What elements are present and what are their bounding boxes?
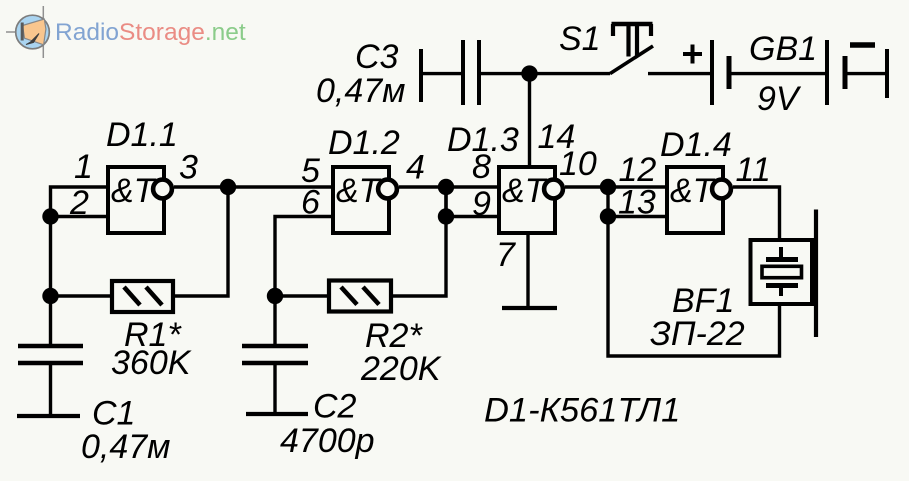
capacitor C1 bottom plate [18, 361, 83, 366]
battery GB1 cell1 long plate [710, 40, 714, 105]
logo transistor circle [16, 15, 50, 49]
battery GB1 cell1 short plate [727, 56, 732, 89]
ground bar [502, 306, 557, 310]
capacitor C2 ground bar [246, 412, 308, 416]
svg-text:D1.2: D1.2 [328, 124, 400, 162]
capacitor C3 plate right [477, 40, 481, 105]
wire pin9 branch [446, 187, 499, 217]
svg-text:220K: 220K [360, 350, 442, 388]
svg-text:C3: C3 [355, 38, 399, 76]
gate D1.1 box [108, 167, 164, 233]
resistor R2 box [329, 281, 391, 312]
svg-text:RadioStorage.net: RadioStorage.net [55, 19, 246, 46]
logo emitter arrow [26, 34, 39, 45]
battery end terminal bar [885, 49, 889, 98]
switch S1 button bar [612, 22, 653, 27]
capacitor C1 ground bar [17, 414, 80, 418]
resistor R1 right wire [173, 187, 228, 296]
piezo BF1 plate B [766, 283, 798, 288]
battery minus sign [850, 42, 875, 48]
svg-text:9V: 9V [757, 80, 802, 118]
wire pin13 branch [608, 187, 667, 217]
battery GB1 cell2 long plate [825, 40, 829, 105]
node dot rail/R1 [42, 288, 58, 304]
wire D1.2 output to D1.3 pin8 [399, 185, 499, 188]
node junction C3/S1/pin14 [521, 65, 537, 81]
resistor R1 slash 1 [124, 287, 140, 305]
switch S1 button bar right tick [649, 24, 653, 36]
battery GB1 cell2 short plate [843, 56, 848, 89]
resistor R2 left wire [275, 294, 329, 297]
svg-text:10: 10 [559, 145, 597, 183]
capacitor C2 bottom plate [242, 361, 308, 366]
gate D1.2 box [333, 167, 389, 233]
node dot output4 top [438, 179, 454, 195]
gate D1.4 output bubble [712, 180, 731, 199]
switch S1 moving contact [610, 46, 653, 74]
resistor R2 slash 1 [341, 287, 357, 305]
switch S1 stem right line [635, 26, 639, 57]
svg-text:0,47м: 0,47м [316, 72, 405, 110]
svg-text:C2: C2 [313, 388, 357, 426]
svg-text:13: 13 [618, 184, 656, 222]
svg-text:9: 9 [472, 185, 491, 223]
resistor R2 slash 2 [363, 287, 379, 305]
svg-text:0,47м: 0,47м [81, 428, 170, 466]
svg-text:GB1: GB1 [749, 30, 817, 68]
svg-text:4700p: 4700p [280, 422, 375, 460]
svg-text:4: 4 [406, 149, 425, 187]
wire BF1 bottom loop [608, 217, 780, 357]
piezo BF1 crystal rect [762, 266, 802, 277]
svg-text:&T: &T [111, 172, 157, 210]
wire output11 to BF1 [733, 187, 780, 239]
svg-text:D1.1: D1.1 [106, 116, 178, 154]
gate D1.3 box [499, 167, 555, 233]
switch S1 button bar left tick [611, 24, 615, 36]
gate D1.2 output bubble [378, 180, 397, 199]
node dot output10 top [600, 179, 616, 195]
wire between cells [729, 72, 827, 75]
wire junction down to pin 14 [528, 74, 531, 167]
logo crosshair horizontal line [6, 31, 22, 33]
switch S1 stem left line [626, 26, 630, 57]
piezo BF1 plate A [766, 257, 798, 262]
wire C3 terminal to plate [421, 72, 462, 75]
piezo BF1 top stem [779, 247, 783, 260]
svg-text:3: 3 [179, 149, 198, 187]
svg-text:11: 11 [736, 151, 771, 189]
resistor R2 right wire [391, 187, 446, 296]
svg-text:&T: &T [670, 172, 716, 210]
wire C3 to S1 [479, 72, 610, 75]
svg-text:ЗП-22: ЗП-22 [650, 315, 745, 353]
wire D1.1 output to D1.2 pin5 [174, 185, 333, 188]
resistor R1 left wire [51, 294, 113, 297]
gate D1.3 output bubble [544, 180, 563, 199]
svg-text:D1.4: D1.4 [660, 126, 732, 164]
gate D1.1 output bubble [153, 180, 172, 199]
node dot output10 bottom [600, 208, 616, 224]
capacitor C3 plate left [461, 40, 465, 105]
resistor R1 box [112, 281, 173, 312]
wire pin6 [275, 217, 333, 347]
piezo BF1 bottom stem [779, 285, 783, 296]
capacitor C3 left terminal bar [419, 49, 423, 102]
node dot pin6/R2 [267, 288, 283, 304]
wire D1.3 output to D1.4 pin12 [565, 185, 667, 188]
svg-text:360K: 360K [111, 344, 192, 382]
wire C2 bottom [273, 363, 276, 414]
svg-text:C1: C1 [92, 395, 135, 433]
wire pin2 [51, 215, 109, 218]
resistor R1 slash 2 [146, 287, 162, 305]
gate D1.4 box [667, 167, 723, 233]
svg-text:&T: &T [336, 172, 382, 210]
battery plus sign [683, 52, 702, 56]
piezo BF1 box [751, 240, 813, 304]
wire C1 bottom [49, 363, 52, 416]
capacitor C2 top plate [242, 344, 308, 349]
logo transistor horn shape [23, 19, 46, 45]
piezo BF1 membrane line [814, 210, 818, 338]
capacitor C1 top plate [18, 344, 83, 349]
logo crosshair vertical line [42, 6, 44, 58]
wire cell2 to end terminal [845, 72, 887, 75]
node dot rail/pin2 [42, 208, 58, 224]
svg-text:1: 1 [74, 148, 93, 186]
node dot output3/R1 [220, 179, 236, 195]
svg-text:8: 8 [472, 148, 491, 186]
wire pin1 [51, 187, 109, 346]
logo transistor base bar [21, 23, 24, 41]
svg-text:7: 7 [496, 236, 516, 274]
node dot output4 bottom [438, 208, 454, 224]
svg-text:S1: S1 [559, 20, 601, 58]
svg-text:D1-К561ТЛ1: D1-К561ТЛ1 [484, 392, 680, 430]
wire S1 to battery [648, 72, 712, 75]
svg-text:&T: &T [502, 172, 548, 210]
wire pin7 to ground [526, 233, 529, 308]
